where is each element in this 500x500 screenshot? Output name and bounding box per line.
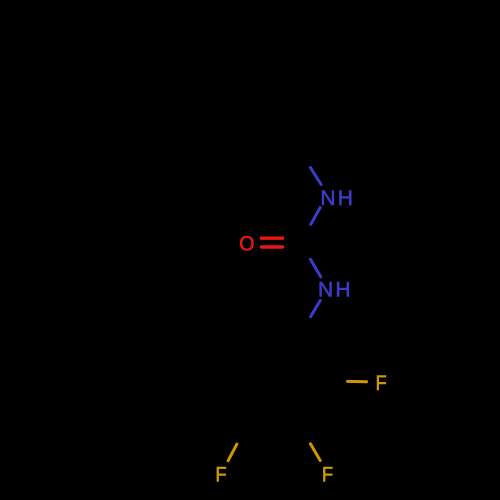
svg-text:F: F — [215, 464, 226, 487]
svg-text:F: F — [376, 372, 387, 395]
wire: bond C(carbonyl)-N2 half (blue stub) — [310, 259, 320, 277]
wire: bond N1-phenyl C half (blue stub upper) — [310, 168, 321, 185]
wire: bond N1-C(carbonyl) half (blue stub) — [311, 208, 320, 225]
svg-text:NH: NH — [318, 278, 353, 301]
svg-text:NH: NH — [320, 187, 355, 210]
wire: bond C2-F1 half (olive stub, horizontal) — [348, 380, 367, 383]
wire: C=O double bond lower red half — [262, 245, 283, 248]
wire: bond C3-F3 half (olive stub) — [310, 444, 320, 461]
svg-text:O: O — [239, 233, 254, 256]
wire: bond N2-aryl C half (blue stub lower) — [311, 301, 321, 317]
wire: C=O double bond upper red half — [262, 236, 283, 239]
svg-text:F: F — [322, 464, 333, 487]
wire: bond C4-F2 half (olive stub) — [228, 444, 237, 461]
